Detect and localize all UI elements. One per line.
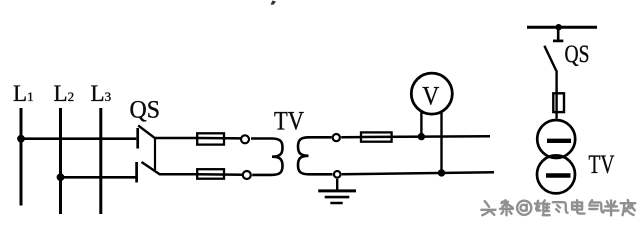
- svg-text:L2: L2: [54, 81, 75, 106]
- svg-text:QS: QS: [130, 97, 161, 124]
- svg-text:L1: L1: [13, 81, 34, 106]
- svg-text:TV: TV: [274, 107, 304, 136]
- svg-text:L3: L3: [91, 81, 112, 106]
- svg-text:QS: QS: [565, 39, 590, 68]
- svg-text:TV: TV: [589, 150, 615, 179]
- svg-text:V: V: [422, 82, 439, 111]
